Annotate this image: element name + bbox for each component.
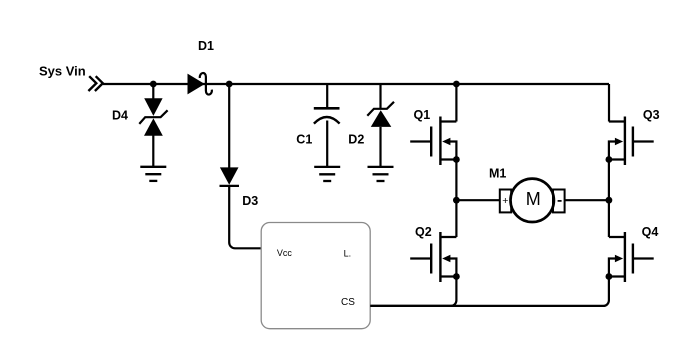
ground (D4) (140, 167, 166, 181)
motor body (511, 179, 554, 222)
wire right bus top corner (rail to Q3 drain) (608, 84, 610, 122)
svg-text:Q4: Q4 (642, 225, 659, 239)
wire (326, 121, 328, 167)
wire (379, 127, 381, 167)
channel (624, 117, 626, 166)
channel (624, 232, 626, 282)
wire Q1 source to motor row (455, 160, 457, 238)
diode D3 (220, 167, 259, 208)
node junction after D1 (226, 81, 233, 88)
wire motor row left (456, 199, 499, 201)
wire (152, 84, 154, 99)
ground (C1) (314, 167, 340, 181)
node junction at D4 (150, 81, 157, 88)
diode D1 (188, 39, 214, 95)
gate lead (410, 140, 431, 142)
gate plate (632, 244, 634, 274)
ground (D2) (368, 167, 394, 181)
drain stub (609, 236, 625, 238)
svg-text:Vcc: Vcc (277, 248, 293, 258)
transistor Q1 (410, 108, 460, 165)
wire (326, 84, 328, 108)
transistor Q3 (606, 108, 660, 165)
wire D3 to Vcc pin (229, 186, 261, 248)
gate plate (430, 244, 432, 274)
zener diode D2 (348, 84, 394, 167)
wire CS to bottom rail (370, 305, 455, 307)
wire D3 branch vertical (228, 84, 230, 168)
source stub (609, 158, 625, 160)
svg-text:M1: M1 (489, 167, 506, 181)
svg-text:CS: CS (341, 297, 355, 308)
channel (439, 232, 441, 282)
body arrow (615, 138, 623, 146)
svg-text:D4: D4 (112, 109, 128, 123)
node input connector chevron (88, 76, 102, 91)
svg-text:D3: D3 (242, 194, 258, 208)
terminal - box (553, 190, 565, 213)
drain stub (440, 120, 456, 122)
source stub (440, 158, 456, 160)
svg-text:M: M (526, 189, 541, 209)
body arrow (615, 255, 623, 263)
wire Q4 source down to bottom rail (452, 277, 609, 306)
wire (379, 84, 381, 109)
gate lead (633, 140, 654, 142)
svg-text:+: + (502, 195, 508, 207)
motor M1 (456, 167, 609, 223)
transistor Q4 (606, 225, 659, 282)
wire top rail (103, 83, 609, 85)
capacitor C1 (296, 84, 339, 167)
svg-text:Q2: Q2 (415, 225, 432, 239)
transistor Q2 (410, 225, 460, 282)
node junction motor row left (453, 197, 460, 204)
wire Q2 source down to bottom rail (370, 277, 456, 306)
source stub (609, 275, 625, 277)
body arrow (442, 255, 450, 263)
TVS diode D4 (112, 84, 168, 167)
svg-text:D1: D1 (198, 39, 214, 53)
svg-text:D2: D2 (348, 132, 364, 146)
body arrow (442, 138, 450, 146)
wire Q1 drain vertical (455, 84, 457, 122)
svg-text:Q3: Q3 (643, 108, 660, 122)
gate plate (430, 127, 432, 157)
svg-text:Sys Vin: Sys Vin (39, 64, 86, 79)
drain stub (440, 236, 456, 238)
drain stub (609, 120, 625, 122)
node junction rail / Q1 drain (453, 81, 460, 88)
IC U1 motor controller (261, 223, 370, 329)
source stub (440, 275, 456, 277)
channel (439, 117, 441, 166)
svg-text:Q1: Q1 (414, 108, 431, 122)
terminal + box (500, 190, 511, 213)
svg-text:L.: L. (344, 248, 352, 258)
wire Q3 source to motor row and Q4 drain (608, 160, 610, 238)
wire (152, 136, 154, 167)
gate lead (633, 257, 654, 259)
node junction motor row right (606, 197, 613, 204)
gate lead (410, 257, 431, 259)
wire motor row right (565, 199, 609, 201)
svg-text:C1: C1 (296, 132, 312, 146)
gate plate (632, 127, 634, 157)
